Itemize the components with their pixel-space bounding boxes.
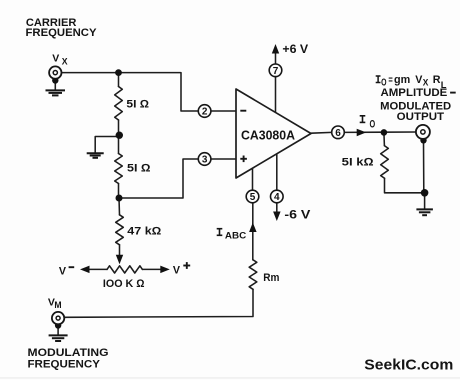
svg-text:+6 V: +6 V bbox=[282, 44, 308, 56]
svg-text:ABC: ABC bbox=[225, 231, 246, 242]
svg-text:V: V bbox=[173, 265, 181, 277]
svg-text:5I Ω: 5I Ω bbox=[126, 98, 149, 110]
svg-text:5: 5 bbox=[250, 192, 256, 203]
svg-text:-6 V: -6 V bbox=[284, 209, 310, 221]
svg-text:V: V bbox=[59, 266, 67, 278]
svg-text:IOO K Ω: IOO K Ω bbox=[103, 278, 145, 290]
svg-text:M: M bbox=[54, 300, 62, 310]
svg-text:=: = bbox=[388, 74, 392, 86]
svg-text:6: 6 bbox=[335, 128, 341, 139]
svg-text:2: 2 bbox=[202, 107, 208, 118]
svg-text:47 kΩ: 47 kΩ bbox=[127, 225, 162, 237]
svg-text:4: 4 bbox=[274, 192, 280, 203]
svg-text:O: O bbox=[370, 119, 376, 131]
svg-text:AMPLITUDE: AMPLITUDE bbox=[381, 87, 448, 99]
svg-text:gm: gm bbox=[394, 74, 410, 86]
svg-text:3: 3 bbox=[202, 155, 208, 166]
svg-text:X: X bbox=[62, 57, 68, 67]
svg-text:7: 7 bbox=[273, 66, 279, 77]
svg-text:FREQUENCY: FREQUENCY bbox=[28, 358, 100, 370]
svg-text:OUTPUT: OUTPUT bbox=[397, 111, 445, 123]
svg-text:X: X bbox=[423, 77, 429, 87]
svg-text:5I kΩ: 5I kΩ bbox=[342, 157, 375, 169]
svg-text:CA3080A: CA3080A bbox=[241, 127, 296, 142]
svg-text:5I Ω: 5I Ω bbox=[127, 163, 151, 175]
svg-text:FREQUENCY: FREQUENCY bbox=[26, 27, 97, 39]
svg-text:R: R bbox=[433, 74, 441, 86]
svg-text:Rm: Rm bbox=[263, 272, 279, 284]
svg-text:SeekIC.com: SeekIC.com bbox=[364, 357, 453, 374]
svg-text:MODULATING: MODULATING bbox=[28, 347, 109, 359]
svg-text:V: V bbox=[52, 53, 59, 65]
